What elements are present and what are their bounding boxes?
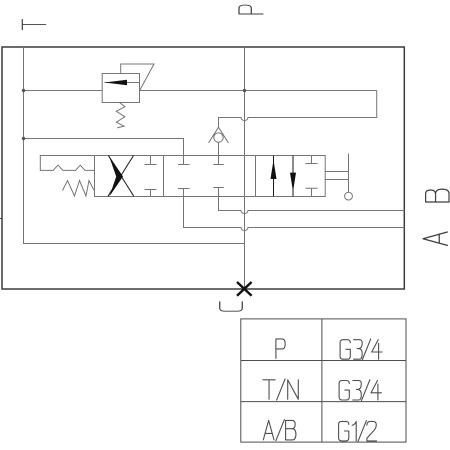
spool position 1 crossed arrows bbox=[108, 156, 134, 197]
relief valve spring bbox=[116, 103, 125, 128]
wire T drop and return run bbox=[24, 47, 245, 244]
table cell P bbox=[276, 339, 285, 359]
spool position 3 down arrow bbox=[292, 156, 294, 197]
wire T branch to valve bbox=[24, 139, 184, 165]
port table bbox=[241, 319, 406, 442]
wire P drop through to C bbox=[244, 47, 246, 289]
wire A line (with hop) bbox=[184, 189, 405, 231]
table cell A/B bbox=[263, 420, 296, 441]
port bar T-port bbox=[178, 164, 190, 166]
blocked port stubs position 3 bbox=[306, 156, 318, 197]
blocked port stubs position 1 bbox=[145, 156, 157, 197]
label C bbox=[220, 302, 243, 311]
return spring bbox=[63, 181, 95, 197]
port tick N on left border bbox=[0, 218, 3, 220]
label B bbox=[426, 189, 449, 202]
spool position 3 up arrow bbox=[273, 156, 275, 197]
detent box bbox=[40, 156, 94, 171]
port bar A-port bbox=[178, 188, 190, 190]
wire B line (with hop) bbox=[219, 188, 405, 214]
table cell G3/4 bottom bbox=[339, 380, 381, 401]
plugged port C x-mark bbox=[237, 282, 252, 296]
relief valve arrow bbox=[105, 80, 128, 86]
wire pilot loop to check valve (with hop) bbox=[219, 91, 377, 128]
junction dot T-relief bbox=[22, 89, 25, 92]
lever actuator bbox=[325, 154, 352, 201]
table cell G1/2 bbox=[339, 421, 377, 442]
port bar P-port bbox=[213, 164, 224, 166]
enclosure border bbox=[2, 47, 404, 289]
port bar B-port bbox=[213, 187, 224, 189]
table cell T/N bbox=[263, 379, 298, 400]
label A bbox=[423, 232, 447, 245]
relief valve RV1 bbox=[102, 64, 154, 103]
directional valve body bbox=[95, 156, 326, 197]
label P bbox=[239, 5, 263, 14]
table cell G3/4 top bbox=[340, 339, 382, 360]
label T bbox=[22, 19, 45, 29]
junction dot P-relief bbox=[243, 89, 246, 92]
junction dot T-branch bbox=[22, 137, 25, 140]
wire relief line bbox=[24, 90, 377, 92]
spool position 1 black chevron fill bbox=[109, 156, 123, 197]
check valve CV1 bbox=[209, 127, 229, 164]
